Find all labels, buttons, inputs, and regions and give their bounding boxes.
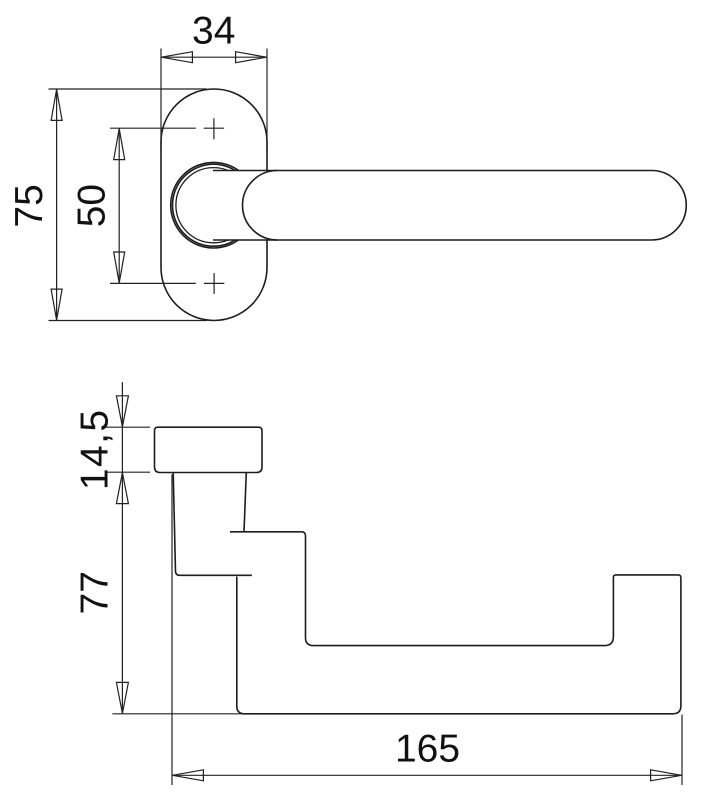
centre cross top xyxy=(204,118,224,139)
dim 75: extension line bottom xyxy=(49,320,208,322)
dim 14.5/77 shared arrow (pointing up) xyxy=(116,473,128,504)
dim 50: arrow top xyxy=(114,129,125,160)
dim 34: arrow right xyxy=(236,52,267,63)
svg-text:14,5: 14,5 xyxy=(74,409,117,491)
svg-text:77: 77 xyxy=(74,571,117,614)
dim 165: arrow right xyxy=(651,770,682,781)
lever grip outline xyxy=(213,171,686,241)
lever grip (front view) white cover xyxy=(213,171,686,241)
collar middle circle xyxy=(173,164,255,246)
neck front edge xyxy=(173,473,252,576)
grip upper contour: step, U channel, upturn, outer right, bottom, front xyxy=(230,532,681,714)
dim 75: extension line top xyxy=(49,88,208,90)
dim 165: extension line left xyxy=(171,475,173,786)
dim 14.5: tick top xyxy=(105,426,150,428)
dim 50: extension line bottom xyxy=(110,282,196,284)
dim 50: dimension line xyxy=(118,128,120,283)
dim 75: dimension line xyxy=(56,89,58,321)
dim 34: extension line left xyxy=(160,49,162,151)
dim 165: extension line right xyxy=(681,715,683,786)
rosette stadium (front view) xyxy=(161,89,267,321)
collar inner circle xyxy=(176,168,251,243)
svg-text:34: 34 xyxy=(192,9,235,52)
dim 50: arrow bottom xyxy=(114,252,125,283)
dim 165: arrow left xyxy=(172,770,203,781)
lever neck transition arc xyxy=(243,171,278,241)
dim 77: arrow bottom (pointing down) xyxy=(116,682,128,713)
dim 14.5: tick bottom xyxy=(105,471,150,473)
dim 75: arrow top xyxy=(51,89,62,120)
centre cross bottom xyxy=(204,273,224,294)
dim 14.5: arrow top (outside, pointing down) xyxy=(116,396,128,427)
collar outer circle xyxy=(171,162,257,248)
dim 165: dimension line xyxy=(172,774,682,776)
svg-text:75: 75 xyxy=(8,184,51,227)
dim 75: arrow bottom xyxy=(51,289,62,320)
dim 50: extension line top xyxy=(110,127,196,129)
rosette side rect xyxy=(155,427,263,472)
dim 34: dimension line xyxy=(161,56,267,58)
dim 14.5/77: dimension line xyxy=(121,382,123,714)
extension line at lever bottom (77) xyxy=(112,713,250,715)
neck back edge xyxy=(244,473,246,532)
dim 34: extension line right xyxy=(266,49,268,151)
svg-text:165: 165 xyxy=(395,728,460,771)
svg-text:50: 50 xyxy=(70,184,113,227)
dim 34: arrow left xyxy=(161,52,192,63)
